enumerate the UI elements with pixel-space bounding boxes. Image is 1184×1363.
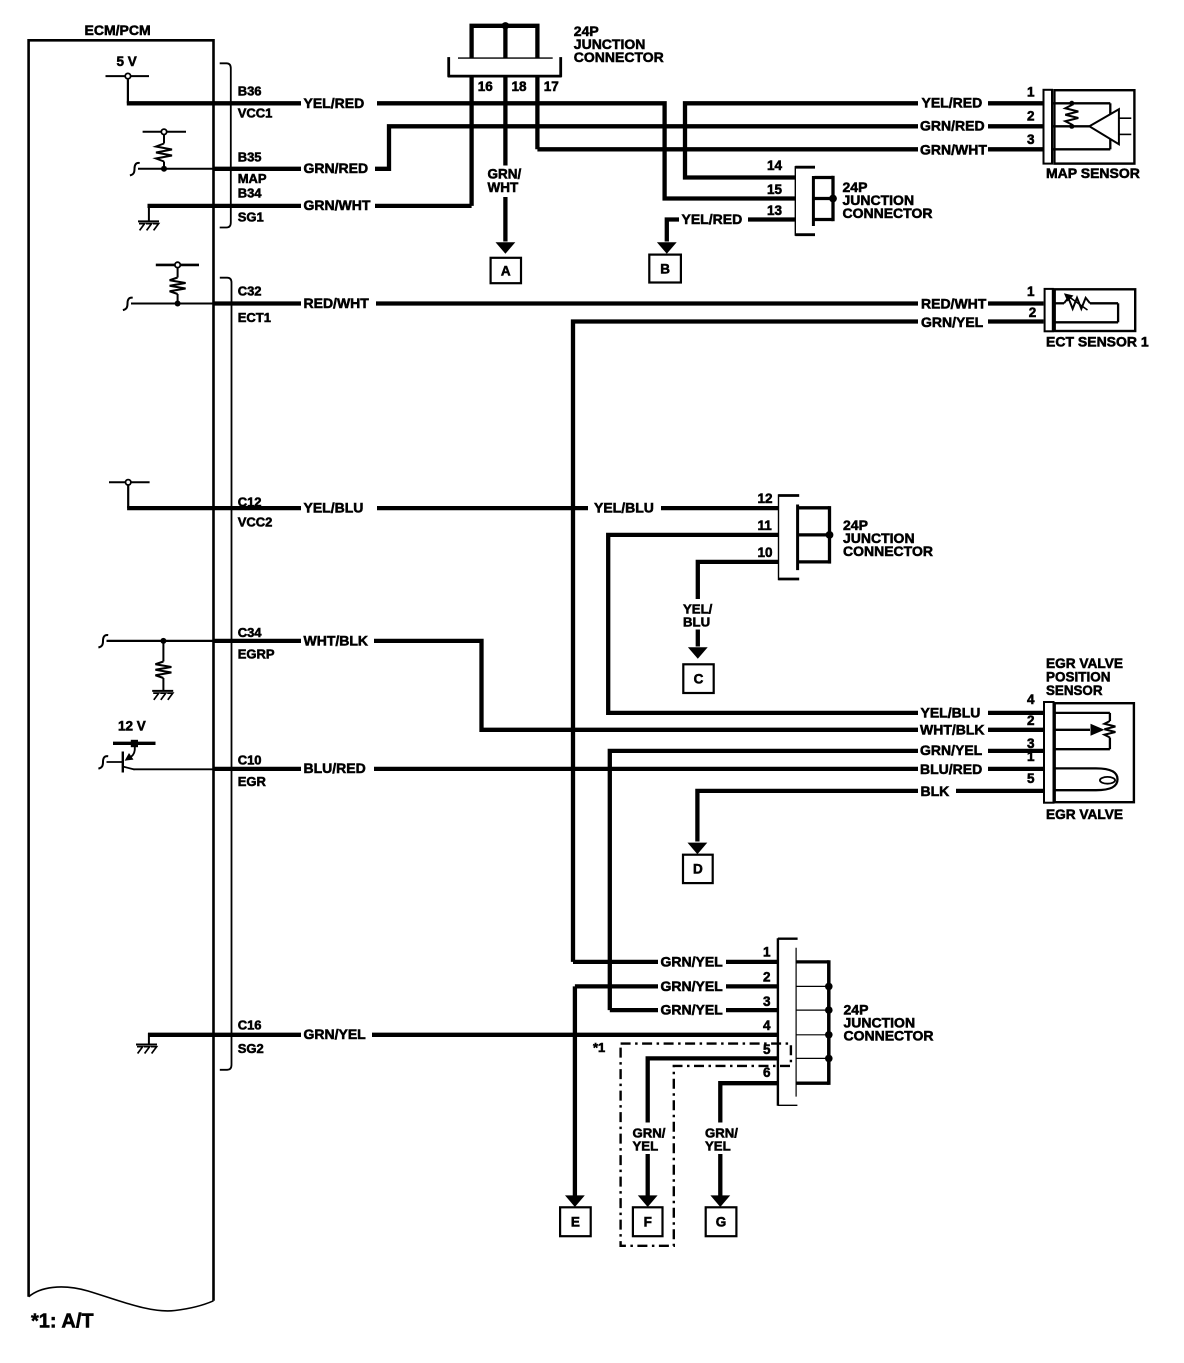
connector box B	[649, 255, 681, 283]
svg-text:2: 2	[1029, 305, 1037, 320]
wire pin 6 to G segment 2	[718, 1154, 722, 1196]
svg-text:B: B	[660, 261, 670, 276]
svg-text:ECT SENSOR 1: ECT SENSOR 1	[1046, 334, 1149, 350]
junction bus stub pin 11	[799, 533, 830, 536]
svg-text:E: E	[571, 1215, 580, 1230]
wire pin 5 to F segment 1	[648, 1058, 778, 1122]
wire pin 18 down segment 2	[503, 197, 507, 242]
svg-text:3: 3	[1027, 132, 1035, 147]
svg-text:BLU: BLU	[683, 614, 710, 629]
wire pin 13 segment 1	[748, 217, 795, 221]
svg-text:GRN/YEL: GRN/YEL	[661, 1002, 724, 1018]
arrow to B	[657, 242, 677, 254]
svg-text:EGRP: EGRP	[238, 647, 275, 662]
wire pin 11 to EGR valve YEL/BLU	[608, 535, 918, 713]
wire GRN/YEL EGR to junction pin 3	[610, 751, 918, 1010]
svg-text:BLK: BLK	[921, 783, 950, 799]
wire BLU/RED segment 1	[214, 767, 302, 771]
svg-text:10: 10	[758, 545, 773, 560]
wire resistor to ground	[162, 678, 164, 691]
EGR solenoid coil	[1054, 768, 1118, 790]
svg-text:14: 14	[767, 158, 783, 173]
MAP amp output stub 2	[1119, 133, 1131, 135]
wire B36 YEL/RED segment 1	[214, 101, 302, 105]
wire RED/WHT segment 1	[214, 301, 302, 305]
svg-text:1: 1	[1027, 749, 1035, 764]
svg-text:CONNECTOR: CONNECTOR	[574, 49, 664, 65]
wire GRN/YEL segment EGR	[988, 749, 1044, 753]
svg-text:GRN/RED: GRN/RED	[920, 118, 985, 134]
svg-text:SG2: SG2	[238, 1041, 264, 1056]
svg-text:YEL/RED: YEL/RED	[922, 95, 983, 111]
wire C10 internal	[134, 768, 214, 770]
wire GRN/WHT to pin 16	[375, 204, 472, 208]
wire pin 18 down segment 1	[503, 77, 507, 166]
MAP internal wire pin 1	[1052, 102, 1110, 104]
svg-text:4: 4	[763, 1018, 771, 1033]
svg-text:VCC2: VCC2	[238, 515, 273, 530]
MAP internal wire pin 3	[1052, 148, 1110, 150]
5V supply terminal bar	[106, 75, 150, 77]
wire GRN/YEL segment ECT	[988, 319, 1044, 323]
svg-text:*1: A/T: *1: A/T	[31, 1311, 94, 1333]
junction bus stub pin 1	[796, 960, 829, 963]
svg-text:YEL/BLU: YEL/BLU	[304, 499, 364, 515]
wire BLK segment 2	[956, 789, 1044, 793]
svg-text:1: 1	[1027, 284, 1035, 299]
wire RED/WHT segment 3	[988, 301, 1044, 305]
wire BLU/RED segment 2	[374, 767, 918, 771]
MAP internal vertical	[1109, 103, 1111, 149]
svg-text:SENSOR: SENSOR	[1046, 682, 1103, 698]
hook symbol B35	[130, 163, 140, 175]
svg-text:C34: C34	[238, 625, 263, 640]
ECT sensor box	[1055, 289, 1136, 331]
wire GRN/YEL ECT vertical	[573, 322, 918, 962]
svg-text:WHT/BLK: WHT/BLK	[920, 722, 985, 738]
wire ECT1 internal	[131, 303, 214, 305]
junction bus vertical (middle)	[828, 506, 831, 563]
svg-text:GRN/WHT: GRN/WHT	[920, 142, 987, 158]
24P junction connector body (top)	[450, 58, 560, 77]
resistor pull-up at ECT input	[156, 264, 199, 267]
svg-text:YEL/RED: YEL/RED	[682, 211, 743, 227]
wire YEL/BLU segment 3	[661, 506, 779, 510]
arrow to A	[496, 242, 516, 254]
svg-text:EGR VALVE: EGR VALVE	[1046, 806, 1123, 822]
wire C12 internal	[127, 506, 213, 510]
wire YEL/BLU segment EGR	[988, 711, 1044, 715]
junction bus stub pin 5	[796, 1057, 829, 1059]
junction bus vertical (bottom)	[827, 960, 831, 1085]
junction node pin 11	[826, 531, 834, 539]
wire YEL/BLU segment 1	[214, 506, 302, 510]
ground SG2	[136, 1044, 157, 1046]
hook symbol C34	[98, 635, 108, 647]
5V terminal circle	[125, 73, 130, 78]
connector box F	[633, 1207, 663, 1236]
wire pin 13 elbow to B	[667, 220, 679, 242]
svg-text:1: 1	[1027, 85, 1035, 100]
svg-text:G: G	[716, 1215, 727, 1230]
wire BLK from D elbow	[697, 791, 918, 842]
svg-text:12: 12	[758, 491, 773, 506]
wire SG1 GRN/WHT segment 1	[214, 204, 302, 208]
wire B35 internal	[138, 168, 214, 170]
wire SG2 GRN/YEL segment 2	[372, 1033, 778, 1037]
svg-text:GRN/WHT: GRN/WHT	[304, 197, 371, 213]
junction bus stub pin 14	[815, 176, 834, 179]
connector box E	[560, 1207, 591, 1236]
wire WHT/BLK segment EGR	[988, 728, 1044, 732]
wire node to resistor	[162, 641, 164, 662]
wire BLU/RED segment EGR	[988, 767, 1044, 771]
junction bus stub pin 13	[815, 218, 834, 221]
svg-text:MAP SENSOR: MAP SENSOR	[1046, 165, 1140, 181]
node C32	[175, 301, 181, 307]
junction node top connector	[502, 22, 509, 29]
wire VCC2 vertical	[127, 485, 129, 508]
connector box G	[706, 1207, 737, 1236]
24P junction connector body (1-6)	[778, 938, 797, 1106]
wire pin 14 to MAP sensor YEL/RED	[685, 103, 918, 177]
svg-text:C10: C10	[238, 753, 262, 768]
wire RED/WHT segment 2	[376, 301, 918, 305]
svg-text:4: 4	[1027, 692, 1035, 707]
svg-text:SG1: SG1	[238, 209, 264, 224]
EGR valve box	[1055, 703, 1134, 802]
connector box D	[683, 855, 713, 883]
svg-text:15: 15	[767, 182, 783, 197]
MAP amp output stub 1	[1119, 117, 1131, 119]
wire pin 18 top stub	[503, 26, 507, 58]
svg-text:EGR: EGR	[238, 774, 267, 789]
wire pin 10 to C segment 1	[698, 562, 779, 599]
svg-text:5: 5	[1027, 771, 1035, 786]
MAP internal resistor	[1069, 101, 1074, 106]
arrow to G	[710, 1195, 730, 1207]
svg-text:D: D	[693, 862, 703, 877]
junction node pin 3	[825, 1006, 833, 1014]
svg-text:B36: B36	[238, 84, 262, 99]
svg-text:6: 6	[763, 1065, 771, 1080]
junction bus stub pin 10	[799, 560, 830, 563]
svg-text:C16: C16	[238, 1018, 262, 1033]
VCC2 supply terminal bar	[109, 481, 150, 483]
wire pin 2 GRN/YEL segment 2	[726, 984, 778, 988]
wire pin 10 to C segment 2	[696, 630, 700, 647]
wire B35 GRN/RED segment 1	[214, 167, 302, 171]
wire SG2 to ground	[148, 1033, 150, 1044]
svg-text:GRN/YEL: GRN/YEL	[920, 742, 983, 758]
ECT internal right vertical	[1117, 303, 1119, 322]
svg-text:12 V: 12 V	[118, 719, 146, 734]
svg-text:WHT/BLK: WHT/BLK	[304, 632, 369, 648]
svg-text:18: 18	[511, 79, 527, 94]
svg-text:GRN/YEL: GRN/YEL	[661, 978, 724, 994]
dashed A/T option box	[621, 1044, 791, 1246]
svg-text:CONNECTOR: CONNECTOR	[843, 205, 933, 221]
12V square terminal	[131, 740, 138, 747]
svg-text:RED/WHT: RED/WHT	[304, 295, 370, 311]
svg-text:1: 1	[763, 944, 771, 959]
svg-text:MAP: MAP	[238, 171, 267, 186]
connector box A	[491, 258, 521, 283]
svg-text:2: 2	[1027, 713, 1035, 728]
wire B36 internal	[127, 101, 214, 105]
wire SG2 GRN/YEL segment 1	[214, 1033, 302, 1037]
svg-text:A: A	[501, 263, 511, 278]
junction node pin 5	[825, 1055, 833, 1063]
MAP internal wire pin 2	[1052, 125, 1089, 127]
wire pin 16 to SG1 row	[469, 77, 473, 206]
junction node pin 15	[829, 195, 837, 203]
svg-text:5 V: 5 V	[117, 54, 137, 69]
wire pin 2 to E	[573, 986, 577, 1195]
svg-text:3: 3	[763, 994, 771, 1009]
junction connector top loop	[472, 26, 538, 58]
MAP sensor box	[1054, 90, 1134, 163]
MAP amplifier triangle	[1089, 109, 1119, 144]
wire pin 6 to G segment 1	[720, 1083, 778, 1122]
wire SG1 internal	[148, 204, 214, 208]
svg-text:ECM/PCM: ECM/PCM	[85, 22, 151, 38]
wire pin 1 GRN/YEL segment 1	[573, 960, 658, 964]
transistor Q (EGR driver)	[122, 752, 124, 773]
junction bus stub pin 3	[796, 1009, 829, 1011]
arrow to F	[638, 1195, 658, 1207]
MAP sensor connector bar	[1044, 90, 1053, 164]
arrow to C	[688, 647, 708, 659]
svg-text:GRN/YEL: GRN/YEL	[921, 314, 984, 330]
ECT internal bottom wire	[1055, 321, 1118, 323]
hook symbol C10	[98, 756, 108, 768]
ground EGRP	[152, 690, 173, 692]
bracket C-pin group	[220, 278, 232, 1070]
resistor pull-up at MAP input	[143, 131, 186, 133]
ECT thermistor arrow	[1070, 298, 1088, 311]
24P junction connector body (12/11/10)	[779, 494, 800, 580]
svg-text:WHT: WHT	[488, 180, 519, 195]
svg-text:13: 13	[767, 203, 783, 218]
junction bus stub pin 12	[799, 506, 830, 509]
wire pin 5 to F segment 2	[646, 1154, 650, 1196]
svg-text:*1: *1	[593, 1040, 605, 1055]
12V supply bar	[113, 742, 156, 745]
svg-text:16: 16	[478, 79, 494, 94]
junction bus stub pin 6	[796, 1082, 829, 1085]
arrow to D	[688, 843, 708, 855]
hook symbol C32	[123, 298, 133, 310]
svg-text:GRN/YEL: GRN/YEL	[304, 1026, 367, 1042]
svg-text:YEL/BLU: YEL/BLU	[594, 499, 654, 515]
svg-text:BLU/RED: BLU/RED	[920, 761, 982, 777]
ground SG1	[138, 220, 159, 222]
junction node pin 2	[825, 983, 833, 991]
wire 5V to B36	[127, 79, 129, 104]
wire pin 2 GRN/YEL segment 1	[575, 984, 658, 988]
svg-text:B34: B34	[238, 185, 263, 200]
wire WHT/BLK segment 1	[214, 639, 302, 643]
svg-text:GRN/RED: GRN/RED	[304, 160, 369, 176]
connector box C	[683, 664, 713, 693]
svg-text:11: 11	[758, 518, 773, 533]
junction bus vertical	[831, 176, 834, 221]
wire YEL/RED segment MAP	[988, 101, 1044, 105]
svg-text:YEL: YEL	[633, 1139, 659, 1154]
wire hook to transistor base	[107, 761, 123, 763]
svg-text:CONNECTOR: CONNECTOR	[844, 1027, 934, 1043]
svg-text:YEL/RED: YEL/RED	[304, 95, 365, 111]
wire WHT/BLK to EGR valve	[374, 641, 918, 730]
ECT thermistor	[1055, 302, 1064, 304]
svg-text:YEL/BLU: YEL/BLU	[921, 704, 981, 720]
arrow to E	[565, 1195, 585, 1207]
svg-text:B35: B35	[238, 149, 262, 164]
VCC2 terminal circle	[126, 480, 131, 485]
wire pin 17 down	[535, 77, 539, 150]
svg-text:C32: C32	[238, 283, 262, 298]
svg-text:BLU/RED: BLU/RED	[304, 760, 366, 776]
junction bus stub pin 2	[796, 985, 829, 987]
junction bus stub pin 15	[815, 197, 834, 200]
wire YEL/BLU segment 2	[377, 506, 588, 510]
wire GRN/RED segment 3	[988, 124, 1044, 128]
24P junction connector body (14/15/13)	[795, 166, 814, 236]
wire GRN/WHT pin17 to MAP segment 1	[537, 147, 918, 151]
wire YEL/RED to junction pin 15	[377, 103, 795, 198]
junction node pin 4	[825, 1031, 833, 1039]
svg-text:2: 2	[1027, 109, 1035, 124]
svg-text:GRN/YEL: GRN/YEL	[661, 953, 724, 969]
svg-text:VCC1: VCC1	[238, 105, 273, 120]
wire SG2 internal	[148, 1033, 214, 1037]
wire EGRP internal	[107, 640, 214, 642]
wire GRN/WHT segment 2	[988, 147, 1044, 151]
EGR valve connector bar	[1044, 702, 1054, 803]
svg-text:C: C	[694, 671, 704, 686]
wire pin 3 GRN/YEL segment 1	[610, 1008, 658, 1012]
wire GRN/RED to MAP sensor	[375, 126, 918, 169]
svg-text:2: 2	[763, 970, 771, 985]
bracket B-pin group	[220, 63, 231, 227]
EGR sensor wiper arrow	[1054, 729, 1091, 731]
wire pin 1 GRN/YEL segment 2	[726, 960, 778, 964]
ECT sensor connector bar	[1045, 289, 1053, 331]
EGR position sensor potentiometer	[1054, 712, 1110, 714]
ECM/PCM box	[29, 40, 214, 1301]
junction bus stub pin 4	[796, 1034, 829, 1036]
svg-text:YEL: YEL	[705, 1139, 731, 1154]
wire SG1 to ground	[148, 204, 150, 221]
svg-text:CONNECTOR: CONNECTOR	[843, 543, 933, 559]
svg-text:RED/WHT: RED/WHT	[921, 296, 987, 312]
svg-text:ECT1: ECT1	[238, 310, 271, 325]
svg-text:F: F	[644, 1215, 652, 1230]
node C34	[160, 638, 166, 644]
wire pin 3 GRN/YEL segment 2	[726, 1008, 778, 1012]
svg-text:17: 17	[544, 79, 559, 94]
node B35	[161, 166, 167, 172]
